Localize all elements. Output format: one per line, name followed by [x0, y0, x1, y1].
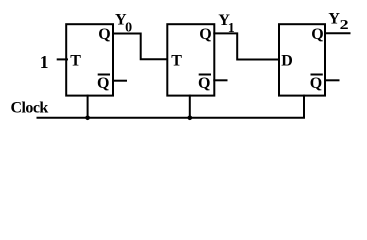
- Clock net label: [11, 100, 49, 117]
- svg-text:Q: Q: [98, 26, 110, 43]
- wire: Q of U2 to D of U3 (net Y1): [213, 33, 280, 59]
- pin label Q (U3): [311, 26, 323, 43]
- svg-text:Clock: Clock: [11, 100, 49, 117]
- svg-text:D: D: [281, 52, 293, 69]
- svg-text:Q: Q: [199, 26, 211, 43]
- junction at clock and U2: [188, 116, 193, 121]
- junction at clock and U1: [85, 116, 90, 121]
- wire: Qbar stub of U2: [213, 79, 227, 81]
- svg-text:T: T: [171, 52, 182, 69]
- pin label Qbar (U3): [310, 75, 323, 92]
- pin label Q (U2): [199, 26, 211, 43]
- node Y0 label: [115, 11, 132, 35]
- pin label Q (U1): [98, 26, 110, 43]
- wire: clock drop to U2: [189, 95, 191, 119]
- wire: Qbar stub of U3: [324, 79, 340, 81]
- wire: clock bus line: [37, 95, 305, 118]
- pin label T (U1): [70, 52, 81, 69]
- input constant 1 label: [40, 52, 49, 72]
- pin label T (U2): [171, 52, 182, 69]
- svg-text:2: 2: [340, 18, 349, 33]
- wire: Q output of U3 (net Y2): [324, 32, 351, 34]
- pin label Qbar (U1): [97, 75, 110, 92]
- svg-text:1: 1: [228, 21, 235, 36]
- svg-text:1: 1: [40, 52, 49, 72]
- wire: Q of U1 to T of U2 (net Y0): [112, 34, 168, 60]
- svg-text:T: T: [70, 52, 81, 69]
- wire: Qbar stub of U1: [112, 80, 127, 82]
- wire: clock drop to U1: [87, 95, 89, 119]
- flip-flop U3 (D flip-flop): [279, 24, 325, 95]
- wire: input 1 to T of U1: [57, 58, 68, 60]
- node Y1 label: [218, 12, 234, 36]
- svg-text:Q: Q: [198, 75, 210, 92]
- flip-flop U2 (T flip-flop): [167, 24, 214, 95]
- svg-text:Q: Q: [97, 75, 109, 92]
- svg-text:0: 0: [125, 20, 132, 35]
- svg-text:Q: Q: [310, 75, 322, 92]
- svg-text:Q: Q: [311, 26, 323, 43]
- node Y2 label: [328, 10, 348, 33]
- pin label Qbar (U2): [198, 75, 211, 92]
- svg-text:Y: Y: [328, 10, 340, 27]
- flip-flop U1 (T flip-flop): [66, 24, 113, 95]
- pin label D (U3): [281, 52, 293, 69]
